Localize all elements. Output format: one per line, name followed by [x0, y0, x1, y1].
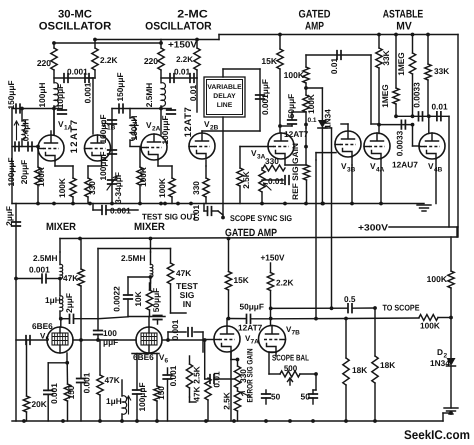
svg-text:330: 330: [191, 181, 201, 195]
svg-text:OSCILLATOR: OSCILLATOR: [145, 21, 212, 33]
label 2-MC OSCILLATOR: [145, 8, 212, 32]
label ERROR SIG GAIN: [246, 348, 255, 402]
wire astable cross node: [396, 114, 449, 227]
inductor 1uH (mixer1): [45, 295, 63, 327]
wire mixer1 feed: [60, 237, 82, 252]
svg-text:2A: 2A: [152, 126, 161, 133]
svg-text:REF SIG GAIN: REF SIG GAIN: [291, 143, 300, 200]
svg-text:SCOPE SYNC SIG: SCOPE SYNC SIG: [230, 213, 292, 223]
wire to V4B grid: [379, 123, 420, 146]
wire 220 top: [53, 43, 55, 48]
inductor 100uH (2MC): [129, 109, 139, 147]
svg-text:33K: 33K: [434, 66, 449, 76]
resistor 33K (astable left): [376, 33, 391, 68]
capacitor 0.001 (test sig out): [93, 204, 138, 216]
resistor 47K (V6 out2): [190, 378, 212, 421]
wire V3A cathode: [285, 128, 310, 204]
svg-text:30-MC: 30-MC: [58, 8, 92, 20]
resistor 100K (V2A cathode): [157, 178, 175, 204]
capacitor 3-34uuF trimmer: [107, 172, 123, 204]
svg-text:150μμF: 150μμF: [6, 80, 16, 109]
svg-text:100K: 100K: [57, 178, 67, 198]
svg-text:10μμF: 10μμF: [55, 84, 65, 108]
svg-text:47K: 47K: [176, 268, 191, 278]
svg-text:0.5: 0.5: [344, 294, 356, 304]
pot REF SIG GAIN: [259, 168, 283, 204]
svg-text:AMP: AMP: [305, 21, 324, 33]
svg-text:MIXER: MIXER: [134, 221, 165, 233]
svg-text:47K: 47K: [63, 273, 78, 283]
svg-text:50μμF: 50μμF: [151, 288, 161, 312]
svg-text:12AT7: 12AT7: [69, 119, 80, 154]
svg-text:1N34: 1N34: [430, 358, 450, 368]
svg-text:MIXER: MIXER: [46, 221, 76, 233]
wire 50uuF node: [292, 111, 306, 113]
resistor 150 (V6): [154, 354, 166, 422]
capacitor 150uuF (30MC tank): [6, 80, 20, 112]
svg-text:12AT7: 12AT7: [183, 107, 194, 138]
capacitor 0.01 (gate coupling): [329, 51, 341, 74]
wire bottom bus: [12, 413, 449, 423]
inductor 2.5MH (mixer1): [33, 252, 63, 279]
label ASTABLE MV: [383, 8, 424, 32]
svg-text:TEST SIG OUT: TEST SIG OUT: [142, 212, 197, 222]
capacitor 50uuF (mixer2): [128, 288, 165, 327]
svg-text:0.001: 0.001: [82, 372, 92, 393]
capacitor 100uuF (V6): [133, 354, 147, 422]
capacitor 150uuF (2MC tank): [112, 72, 161, 112]
capacitor 100uuF (2MC): [160, 109, 175, 145]
label REF SIG GAIN: [291, 143, 300, 200]
tube V1B: [85, 119, 116, 161]
wire left rail upper: [11, 109, 13, 204]
svg-text:0.1: 0.1: [308, 117, 317, 124]
tube V3B: [335, 131, 361, 174]
svg-text:0.4μH: 0.4μH: [21, 119, 31, 142]
tube V4B: [419, 133, 445, 174]
resistor 15K (gated amp): [261, 33, 283, 69]
svg-text:2μμF: 2μμF: [64, 293, 74, 313]
resistor 47K (V5 out): [97, 340, 120, 421]
wire V7 plate risers: [227, 319, 229, 326]
wire 2MC LC node: [159, 106, 163, 135]
wire ground bus: [12, 202, 424, 206]
tube V1A: [38, 119, 73, 161]
wire V1B cathode: [88, 161, 102, 179]
svg-text:0.01: 0.01: [174, 67, 191, 77]
label +300V: [358, 223, 388, 233]
node +150V: [52, 38, 199, 50]
svg-text:0.001: 0.001: [83, 82, 93, 103]
svg-text:100K: 100K: [284, 70, 305, 80]
capacitor 20uuF: [19, 142, 32, 184]
label SCOPE SYNC SIG: [221, 117, 292, 223]
capacitor 0.01 (ref sig): [268, 176, 289, 186]
svg-text:6: 6: [165, 358, 169, 365]
resistor 100K (V2A grid): [130, 147, 148, 204]
capacitor 0.0022 (mixer2): [112, 277, 151, 317]
capacitor 0.001 (30MC coupling): [64, 67, 88, 83]
label GATED AMP (2): [225, 227, 277, 239]
wire V6 leads: [162, 338, 203, 352]
resistor 330 (ref sig): [263, 156, 285, 171]
wire mixer2 feed: [149, 237, 153, 252]
svg-text:1MEG: 1MEG: [396, 52, 406, 76]
svg-text:OSCILLATOR: OSCILLATOR: [39, 21, 112, 33]
resistor 100K (V1A grid leak): [35, 145, 46, 204]
svg-text:IN: IN: [183, 299, 192, 309]
resistor 18K (b): [372, 308, 395, 421]
svg-text:SeekIC.com: SeekIC.com: [404, 428, 470, 442]
watermark SeekIC.com: [404, 428, 470, 442]
svg-text:100μμF: 100μμF: [98, 151, 108, 180]
svg-text:12AT7: 12AT7: [284, 129, 309, 139]
wire V3A plate riser: [278, 69, 282, 133]
capacitor 0.5 (to scope): [271, 294, 377, 313]
box VARIABLE DELAY LINE: [204, 77, 245, 117]
resistor 2.5K (V3A grid): [237, 147, 268, 204]
svg-text:0.001: 0.001: [49, 383, 59, 404]
svg-text:100μμF: 100μμF: [98, 114, 108, 143]
svg-text:0.0022: 0.0022: [112, 286, 122, 312]
capacitor 0.01 (2MC b): [188, 74, 198, 101]
svg-text:ERROR SIG GAIN: ERROR SIG GAIN: [246, 348, 255, 402]
svg-text:2.5MH: 2.5MH: [33, 253, 57, 263]
svg-text:100μH: 100μH: [129, 116, 139, 141]
capacitor 0.001 (mixer1 out): [77, 340, 92, 421]
wire V2B cathode: [205, 161, 207, 179]
resistor 220 (2MC): [144, 43, 164, 70]
diode D2 1N34: [430, 347, 456, 368]
svg-text:1MEG: 1MEG: [380, 84, 390, 108]
capacitor 0.01 (scope sync): [191, 204, 223, 222]
wire delay line top: [223, 69, 260, 77]
wire V1A grid line: [12, 146, 38, 148]
svg-text:DELAY: DELAY: [213, 93, 236, 100]
svg-text:220: 220: [144, 56, 158, 66]
svg-text:3-34μμF: 3-34μμF: [113, 172, 123, 204]
wire 30MC node y78: [54, 70, 95, 82]
capacitor 0.001 (V5 a): [44, 363, 59, 421]
wire right rail top: [457, 35, 459, 228]
capacitor 10uuF: [54, 84, 66, 114]
label TO SCOPE: [383, 303, 420, 313]
svg-text:0.0033: 0.0033: [395, 130, 405, 156]
capacitor 0.001uuF (delay): [256, 79, 270, 115]
svg-text:33K: 33K: [381, 50, 391, 65]
svg-text:220: 220: [37, 58, 51, 68]
svg-text:0.001: 0.001: [170, 319, 180, 340]
pot 2.5K (error sig gain): [222, 358, 252, 421]
svg-text:50μμF: 50μμF: [286, 94, 296, 118]
inductor 1uH variable (mixer1): [106, 380, 131, 421]
svg-text:GATED: GATED: [299, 8, 331, 20]
svg-text:7B: 7B: [292, 330, 301, 337]
resistor 100K (gated amp upper): [284, 55, 310, 83]
wire 33K to V4A plate: [377, 68, 381, 134]
resistor 220 (30MC plate): [37, 48, 57, 70]
resistor 2.2K (30MC): [92, 48, 118, 70]
wire V3B plate: [341, 124, 348, 131]
svg-text:100μH: 100μH: [37, 83, 47, 108]
label GATED AMP: [299, 8, 331, 32]
svg-text:18K: 18K: [380, 360, 395, 370]
svg-text:0.0033: 0.0033: [412, 82, 422, 108]
diode 1N34 (gate): [304, 86, 332, 148]
svg-text:+300V: +300V: [358, 223, 388, 233]
resistor 150 (V5): [64, 363, 76, 421]
svg-text:2.2K: 2.2K: [276, 278, 294, 288]
svg-text:0.001: 0.001: [29, 265, 50, 275]
svg-text:0.001: 0.001: [168, 365, 178, 386]
wire V7B plate long: [271, 317, 419, 320]
svg-text:50: 50: [271, 392, 281, 402]
capacitor 0.001 (V6 plate): [168, 319, 203, 340]
capacitor 2uuF (mixer1): [59, 293, 128, 323]
wire +150V top bus (left): [54, 42, 161, 44]
capacitor 100uuF (mid upper): [98, 114, 116, 143]
svg-text:1μH: 1μH: [45, 295, 61, 305]
wire V1A cathode: [55, 162, 73, 179]
svg-text:15K: 15K: [261, 56, 277, 66]
inductor 2.5MH (mixer2): [121, 252, 153, 277]
svg-text:18K: 18K: [352, 365, 367, 375]
wire 100K top link: [306, 55, 379, 124]
svg-text:1μH: 1μH: [106, 396, 122, 406]
capacitor 50uuF (gated amp): [280, 94, 296, 126]
svg-text:μμF: μμF: [103, 337, 118, 347]
capacitor 0.0033 (astable b): [395, 120, 406, 156]
svg-text:100K: 100K: [306, 94, 316, 114]
tube V3A: [251, 133, 294, 161]
capacitor 0.01 (astable): [432, 102, 449, 121]
svg-text:0.001μμF: 0.001μμF: [260, 79, 270, 115]
inductor 100uH (30MC): [37, 83, 58, 108]
resistor 47K (mixer1): [63, 239, 84, 341]
wire 2MC node y78: [161, 70, 197, 82]
resistor 1MEG (astable 2): [380, 33, 399, 119]
capacitor 0.01 (2MC): [170, 67, 191, 83]
inductor 2.5MH (2MC): [144, 83, 165, 108]
wire V5 leads: [16, 336, 136, 345]
resistor 100K (scope div upper): [427, 237, 455, 319]
svg-text:10K: 10K: [133, 291, 143, 306]
label TEST SIG IN: [171, 281, 199, 313]
wire V6 cathode col: [132, 353, 159, 355]
svg-text:GATED AMP: GATED AMP: [225, 227, 277, 239]
capacitor 2uuF (left rail): [4, 206, 20, 226]
capacitor 100uuF (mid lower): [98, 150, 116, 181]
svg-text:100μμF: 100μμF: [6, 157, 16, 186]
wire V1B grid riser: [87, 78, 93, 134]
capacitor 0.001 (mixer1 inj): [16, 265, 60, 283]
svg-text:MV: MV: [396, 21, 412, 33]
capacitor 100uuF (V1A grid): [6, 142, 19, 186]
label TEST SIG OUT: [142, 212, 197, 222]
svg-text:100μμF: 100μμF: [137, 382, 147, 411]
svg-text:2.5K: 2.5K: [192, 366, 202, 384]
resistor 33K (astable right): [425, 33, 449, 119]
tube V2B: [189, 119, 219, 159]
resistor 10K (mixer2): [133, 277, 153, 310]
svg-text:15K: 15K: [234, 275, 249, 285]
capacitor 50 (right): [301, 390, 318, 404]
svg-text:12AU7: 12AU7: [392, 160, 418, 170]
capacitor 50uuF (gated2): [229, 302, 271, 324]
svg-text:0.01: 0.01: [191, 205, 201, 222]
pot 500: [269, 352, 318, 390]
svg-text:2.5K: 2.5K: [241, 171, 251, 189]
svg-text:VARIABLE: VARIABLE: [207, 84, 242, 91]
wire mixer2 node: [149, 275, 153, 290]
wire +300V rail: [60, 227, 458, 239]
svg-text:150: 150: [156, 386, 166, 400]
capacitor 100uuF (V5-V6): [94, 249, 119, 348]
svg-text:100K: 100K: [420, 321, 440, 331]
svg-text:2.5MH: 2.5MH: [121, 253, 145, 263]
wire left tank: [12, 108, 54, 110]
svg-text:330: 330: [265, 156, 279, 166]
svg-text:100K: 100K: [138, 167, 148, 187]
wire diode to ground: [449, 366, 453, 415]
label 12AT7 (V1): [69, 119, 80, 154]
resistor 2.2K (gated2): [267, 263, 293, 326]
wire diode to V3B grid: [316, 128, 336, 310]
tube V2A: [141, 120, 167, 160]
tube V4A: [364, 133, 390, 174]
svg-text:50: 50: [301, 392, 311, 402]
svg-text:6BE6: 6BE6: [32, 321, 53, 331]
wire V7 cathodes: [231, 352, 276, 421]
label 12AT7 (V3): [284, 129, 309, 139]
svg-text:2.5MH: 2.5MH: [144, 83, 154, 107]
svg-text:LINE: LINE: [217, 102, 233, 109]
svg-text:+150V: +150V: [168, 40, 197, 50]
svg-text:150: 150: [66, 385, 76, 399]
svg-text:47K: 47K: [105, 375, 120, 385]
svg-text:20K: 20K: [32, 399, 47, 409]
tube V6 6BE6: [133, 327, 169, 365]
resistor 330 (error sig): [231, 353, 248, 389]
label MIXER (1): [46, 221, 76, 233]
inductor 0.4uH variable: [14, 107, 30, 147]
svg-text:+150V: +150V: [261, 253, 285, 263]
svg-text:0.01: 0.01: [432, 102, 449, 112]
capacitor 50 (left): [262, 390, 281, 404]
ground (output): [444, 408, 458, 414]
resistor 100K (scope series): [419, 315, 451, 331]
label MIXER (2): [134, 221, 165, 233]
resistor 47K (test sig): [98, 249, 191, 285]
svg-text:0.01: 0.01: [329, 58, 339, 75]
svg-text:20μμF: 20μμF: [19, 160, 29, 184]
svg-text:1N34: 1N34: [323, 109, 333, 129]
svg-text:2.2K: 2.2K: [100, 55, 118, 65]
wire left rail lower: [14, 204, 18, 422]
label 30-MC OSCILLATOR: [39, 8, 112, 32]
resistor 1MEG (astable 1): [396, 33, 416, 117]
wire V5 cathode col: [48, 353, 69, 365]
resistor 15K (gated2): [225, 237, 248, 321]
svg-text:100K: 100K: [36, 167, 46, 187]
wire 30MC LC node: [52, 106, 56, 135]
svg-text:0.01: 0.01: [268, 176, 285, 186]
resistor 330 (V2B cathode): [191, 178, 209, 204]
wire 2.2K top jog: [95, 40, 219, 49]
capacitor 0.0033 (astable a): [412, 82, 423, 121]
capacitor 0.01 (error sig): [203, 338, 234, 387]
svg-text:50μμF: 50μμF: [240, 302, 264, 312]
wire mid tank column: [111, 109, 113, 204]
wire gated2 verticals: [314, 160, 318, 321]
svg-text:330: 330: [87, 181, 97, 195]
svg-text:ASTABLE: ASTABLE: [383, 8, 424, 20]
capacitor 0.001 (V6 b): [163, 365, 178, 421]
label SCOPE BAL 500: [272, 353, 309, 374]
wire mixer1 node: [58, 277, 62, 296]
label 12AU7: [392, 160, 418, 170]
svg-text:D: D: [437, 347, 443, 357]
resistor 18K (a): [343, 317, 367, 421]
svg-text:12AT7: 12AT7: [238, 323, 263, 333]
resistor 20K (mixer1): [23, 340, 46, 421]
tube V7B: [259, 325, 301, 353]
label +150V (2): [261, 253, 285, 263]
svg-text:SCOPE BAL: SCOPE BAL: [272, 353, 309, 363]
wire right rail lower: [450, 318, 452, 359]
resistor 100K (gated amp lower): [303, 83, 316, 128]
capacitor 0.001 (30MC coupling 2): [83, 74, 93, 104]
label 12AT7 (V2): [183, 107, 194, 138]
svg-text:TO SCOPE: TO SCOPE: [383, 303, 420, 313]
tube V5 6BE6: [32, 321, 73, 353]
svg-text:2.2K: 2.2K: [176, 55, 193, 64]
wire V2B grid riser: [196, 78, 198, 112]
wire V3B cathode: [351, 158, 353, 204]
resistor 2.5K (V6 out): [186, 356, 201, 397]
svg-text:100K: 100K: [427, 274, 448, 284]
resistor 2.2K (2MC): [176, 40, 200, 71]
wire V4 cathodes: [381, 116, 436, 203]
wire delay line right drop: [202, 69, 260, 133]
ground (main bus): [417, 205, 431, 211]
svg-text:150μμF: 150μμF: [115, 72, 125, 101]
svg-text:2.5K: 2.5K: [222, 392, 232, 410]
svg-text:47K: 47K: [192, 386, 202, 401]
svg-text:2μμF: 2μμF: [4, 206, 14, 226]
svg-text:2-MC: 2-MC: [177, 8, 208, 20]
svg-text:100K: 100K: [157, 178, 167, 198]
resistor 330 (V1B cathode): [85, 178, 97, 204]
wire V1A plate: [51, 109, 54, 135]
wire V2A cathode: [158, 161, 172, 179]
tube V7A: [214, 323, 263, 353]
wire top bus (right, to +300V rail): [219, 35, 458, 40]
resistor 100K (V1A cathode): [57, 178, 76, 204]
